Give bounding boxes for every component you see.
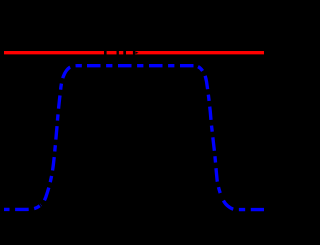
blue curve: flat top	[84, 64, 196, 67]
blue curve: bottom-right bend and flat tail	[222, 197, 265, 210]
blue curve: left skirt rise	[41, 66, 84, 205]
red horizontal reference line: solid left part	[4, 51, 104, 54]
blue curve: right corner and skirt fall	[195, 66, 222, 197]
black notch wedge cut into red line	[135, 51, 138, 54]
red horizontal reference line: segment 2	[107, 51, 117, 54]
red horizontal reference line: solid right part	[135, 51, 264, 54]
red horizontal reference line: segment 3	[119, 51, 123, 54]
blue curve: bottom-left flat segment	[4, 205, 41, 209]
red horizontal reference line: segment 4	[126, 51, 133, 54]
